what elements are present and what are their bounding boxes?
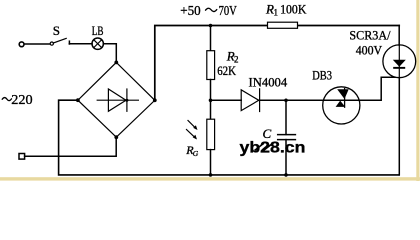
svg-text:SCR3A/: SCR3A/ (349, 28, 390, 43)
svg-text:IN4004: IN4004 (249, 75, 288, 90)
svg-text:yb28.cn: yb28.cn (240, 139, 306, 156)
svg-text:S: S (53, 23, 60, 38)
svg-text:DB3: DB3 (312, 68, 332, 83)
svg-text:LB: LB (92, 23, 104, 38)
svg-text:220: 220 (11, 93, 32, 108)
svg-text:400V: 400V (356, 43, 383, 58)
svg-text:G: G (193, 149, 199, 158)
svg-text:+50: +50 (180, 4, 200, 19)
svg-text:62K: 62K (217, 63, 236, 78)
svg-text:100K: 100K (280, 2, 307, 17)
svg-text:70V: 70V (219, 4, 237, 19)
svg-text:1: 1 (274, 8, 279, 18)
